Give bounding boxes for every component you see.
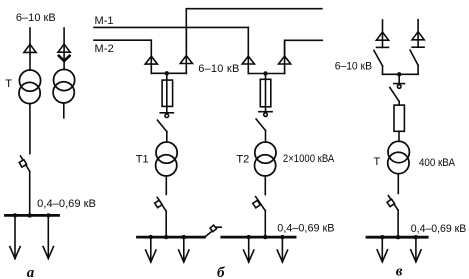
bus wire top feeder [186, 9, 322, 56]
wire stub below transformer (section a, line 2) [63, 103, 65, 118]
node dot b-left busbar 1 [149, 235, 153, 239]
wire incoming line 1 upper (section a) [29, 28, 31, 70]
node dot b-right busbar 1 [247, 235, 251, 239]
cable termination triangle bay1 left [145, 56, 157, 64]
svg-text:М-1: М-1 [95, 15, 114, 27]
bus tie fuse-switch (section b) [205, 225, 222, 237]
wire bay2 connector [248, 73, 284, 75]
busbar 0.4-0.69 kV (section a) [6, 214, 59, 217]
svg-text:М-2: М-2 [95, 43, 114, 55]
fuse-disconnector switch bay2 lower [253, 197, 266, 211]
bus wire M-2 right segment [285, 40, 323, 56]
node dot b-right busbar 2 [263, 235, 267, 239]
cable termination triangle v-left [376, 32, 388, 40]
wire v-right to connector [417, 65, 419, 74]
feeder arrow right (section a) [43, 215, 53, 258]
svg-text:6–10 кВ: 6–10 кВ [335, 61, 372, 73]
cable termination triangle bay2 right [279, 56, 291, 64]
arrowhead down on line 2 (section a) [59, 56, 70, 61]
feeder arrow b1 [146, 237, 156, 262]
switch contact bar (section v) [394, 83, 405, 85]
switch contact bar bay1 [160, 112, 173, 114]
wire switch to busbar (section a) [29, 171, 31, 215]
switch hinge circle (section v) [397, 85, 401, 89]
feeder arrow b3 [244, 237, 254, 262]
wire T2 to lower switch [264, 176, 266, 195]
svg-text:400 кВА: 400 кВА [419, 157, 456, 169]
switch blade bay2 [256, 119, 265, 131]
busbar 0.4 kV left (section b) [138, 236, 205, 239]
svg-text:б: б [217, 265, 225, 279]
disconnector contact bar v-right [412, 46, 424, 48]
wire switch to transformer T2 [265, 131, 267, 143]
svg-text:6–10 кВ: 6–10 кВ [198, 63, 239, 75]
wire bay1 left drop [150, 40, 152, 73]
transformer T2 [255, 142, 277, 176]
fuse F1 (bay1) [162, 80, 173, 106]
wire blade to fuse (section v) [398, 102, 400, 106]
wire v-left to connector [382, 66, 384, 74]
svg-text:Т: Т [5, 78, 12, 90]
cable termination triangle v-right [412, 32, 424, 40]
svg-text:0,4–0,69 кВ: 0,4–0,69 кВ [37, 198, 96, 210]
node dot bay1 junction [165, 71, 169, 75]
feeder arrow v2 [411, 237, 421, 262]
wire bay1 junction to fuse [166, 73, 168, 113]
wire bay2 junction to fuse [265, 74, 267, 112]
wire lower switch to busbar (bay2) [264, 211, 266, 237]
wire bay2 left drop [247, 27, 249, 73]
switch blade bay1 [157, 120, 166, 132]
busbar 0.4 kV right (section b) [222, 236, 295, 239]
svg-text:0,4–0,69 кВ: 0,4–0,69 кВ [277, 222, 334, 234]
wire lower switch to busbar (bay1) [165, 211, 167, 237]
bus wire M-1 [94, 26, 248, 28]
feeder arrow b2 [179, 237, 189, 262]
transformer (section a, line 2) [53, 69, 75, 103]
fuse F2 (bay2) [260, 79, 271, 107]
switch hinge circle bay2 [264, 113, 268, 117]
node dot v busbar 1 [380, 235, 384, 239]
wire fuse to transformer (section v) [398, 131, 400, 141]
wire incoming line 2 upper (section a) [63, 28, 65, 70]
disconnector contact bar v-left [377, 46, 389, 48]
cable termination triangle bay1 right [180, 56, 192, 64]
node dot b-left busbar 3 [182, 235, 186, 239]
wire left stub (section v) [382, 20, 384, 47]
node dot left (section a busbar) [13, 213, 17, 217]
wire right stub (section v) [417, 20, 419, 48]
transformer T1 [156, 142, 178, 176]
svg-text:6–10 кВ: 6–10 кВ [16, 12, 56, 24]
svg-text:а: а [27, 265, 35, 279]
node dot right (section a busbar) [46, 213, 50, 217]
switch hinge circle bay1 [165, 114, 169, 118]
cable termination triangle bay2 left [242, 56, 254, 64]
wire switch to transformer T1 [166, 132, 168, 143]
fuse F (section v) [394, 105, 404, 131]
svg-text:2×1000 кВА: 2×1000 кВА [283, 153, 335, 165]
cable termination triangle line 1 (section a) [24, 44, 36, 52]
node dot b-left busbar 2 [164, 235, 168, 239]
feeder arrow b4 [277, 237, 287, 262]
feeder arrow left (section a) [10, 215, 20, 258]
transformer T (section v) [388, 141, 410, 173]
fuse-disconnector switch bay1 lower [155, 197, 167, 211]
node dot junction (section v) [397, 72, 401, 76]
disconnector blade v-left [374, 50, 383, 66]
transformer T (section a, line 1) [19, 70, 41, 104]
wire bay1 right drop [185, 27, 187, 73]
disconnector blade v-right [410, 50, 418, 65]
wire connector (section v) [383, 73, 419, 75]
node dot v busbar 2 [396, 235, 400, 239]
wire T1 to lower switch [165, 176, 167, 194]
node dot v busbar 3 [414, 235, 418, 239]
feeder arrow v1 [377, 237, 387, 262]
wire transformer to switch (section a) [29, 104, 31, 154]
node dot b-right busbar 3 [280, 235, 284, 239]
node dot bay2 junction [263, 71, 267, 75]
switch contact bar bay2 [259, 111, 272, 113]
wire junction to switch (section v) [398, 74, 400, 83]
svg-text:Т: Т [374, 156, 381, 168]
svg-text:в: в [396, 264, 403, 279]
switch blade (section v) [390, 88, 399, 102]
wire lower switch to busbar (section v) [397, 210, 399, 237]
fuse-disconnector switch (section v lower) [387, 196, 398, 210]
wire bay2 right drop [284, 40, 286, 73]
cable termination triangle line 2 (section a) [58, 44, 70, 52]
wire bay1 connector [151, 72, 186, 74]
node dot middle (section a busbar) [28, 213, 32, 217]
svg-text:Т2: Т2 [236, 154, 249, 166]
fuse-disconnector switch (section a) [19, 156, 30, 171]
busbar 0.4 kV (section v) [367, 236, 427, 239]
wire transformer to lower switch (section v) [397, 174, 399, 194]
svg-text:Т1: Т1 [136, 154, 149, 166]
bus wire M-2 left segment [94, 39, 151, 41]
svg-text:0,4–0,69 кВ: 0,4–0,69 кВ [411, 223, 467, 235]
